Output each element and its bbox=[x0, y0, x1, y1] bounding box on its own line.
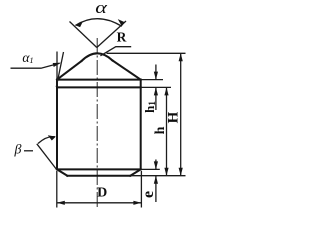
arrowheads bbox=[48, 19, 183, 205]
extension of flange top bbox=[141, 168, 160, 170]
e arrowhead up bbox=[154, 176, 158, 184]
H arrowhead up bbox=[179, 53, 183, 61]
H dimension line bbox=[180, 53, 182, 175]
centerline (vertical dash-dot axis) bbox=[96, 38, 98, 209]
h arrowhead down bbox=[164, 168, 168, 176]
svg-text:β: β bbox=[14, 143, 22, 158]
alpha arc right arrowhead bbox=[118, 19, 125, 26]
alpha1 vertical extension bbox=[56, 52, 58, 80]
D arrowhead right bbox=[133, 201, 141, 205]
extension of bottom face bbox=[130, 175, 185, 177]
h arrowhead up bbox=[164, 87, 168, 95]
e bottom leader bbox=[155, 176, 157, 202]
h1 arrowhead up bbox=[154, 87, 158, 95]
svg-text:α: α bbox=[95, 0, 107, 17]
alpha1 leader with underline tail bbox=[11, 63, 60, 68]
alpha1 taper line bbox=[56, 52, 63, 87]
bottom chamfer left bbox=[57, 169, 67, 175]
D dimension line bbox=[57, 202, 142, 204]
cone left slant bbox=[57, 61, 82, 80]
shoulder junction line bbox=[57, 79, 141, 81]
D left extension line bbox=[56, 171, 58, 208]
h1 arrowhead down bbox=[154, 72, 158, 80]
thin extension and dimension lines bbox=[11, 19, 186, 208]
alpha dimension arc bbox=[75, 19, 121, 27]
beta leader slant bbox=[37, 144, 57, 170]
punch body outline bbox=[57, 53, 141, 175]
cone right slant bbox=[113, 61, 141, 80]
R leader line bbox=[100, 47, 131, 56]
extension of land line bbox=[141, 86, 171, 88]
beta arc arrowhead bbox=[48, 135, 56, 140]
alpha arc left arrowhead bbox=[75, 21, 83, 27]
land lower circle line bbox=[57, 86, 141, 88]
flange top circle line bbox=[57, 168, 141, 170]
svg-text:e: e bbox=[140, 191, 157, 198]
alpha1 leader arrowhead bbox=[53, 63, 61, 67]
bottom face bbox=[67, 175, 130, 177]
engineering drawing of spherical-nose punch with dimensions bbox=[0, 0, 200, 213]
D arrowhead left bbox=[57, 201, 65, 205]
h1 top leader bbox=[155, 65, 157, 80]
extension line from dome top bbox=[107, 52, 186, 54]
left body edge bbox=[56, 80, 58, 170]
e arrowhead down bbox=[154, 161, 158, 169]
h1 bottom leader bbox=[155, 87, 157, 110]
svg-text:R: R bbox=[117, 30, 127, 45]
H arrowhead down bbox=[179, 168, 183, 176]
bottom chamfer right bbox=[130, 169, 140, 175]
h dimension line bbox=[166, 87, 168, 175]
e top leader bbox=[155, 160, 157, 170]
svg-text:D: D bbox=[97, 186, 107, 201]
nose dome arc R bbox=[82, 53, 113, 61]
beta angle arc bbox=[38, 137, 55, 144]
alpha right V line bbox=[97, 21, 126, 48]
extension of shoulder line bbox=[141, 79, 163, 81]
alpha left V line bbox=[70, 22, 97, 48]
svg-text:H: H bbox=[165, 111, 181, 123]
svg-text:h: h bbox=[153, 126, 168, 134]
right body edge bbox=[140, 80, 142, 170]
D right extension line bbox=[140, 171, 142, 208]
beta label tail bbox=[24, 150, 33, 152]
